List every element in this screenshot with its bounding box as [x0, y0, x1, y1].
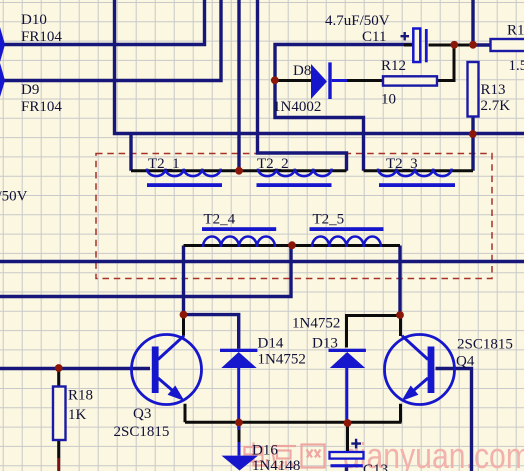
svg-text:D8: D8 [293, 63, 311, 79]
svg-text:T2_2: T2_2 [257, 156, 289, 172]
svg-text:1N4752: 1N4752 [258, 352, 306, 368]
svg-text:Q3: Q3 [133, 406, 151, 422]
svg-text:1N4148: 1N4148 [252, 458, 300, 471]
svg-text:D10: D10 [21, 12, 47, 28]
svg-text:2.7K: 2.7K [481, 98, 511, 114]
svg-text:2SC1815: 2SC1815 [457, 337, 513, 353]
svg-text:T2_5: T2_5 [313, 212, 345, 228]
svg-text:FR104: FR104 [21, 29, 62, 45]
svg-text:R13: R13 [481, 82, 506, 98]
svg-text:1.5K: 1.5K [509, 58, 524, 74]
svg-text:T2_4: T2_4 [204, 212, 236, 228]
svg-text:C13: C13 [363, 462, 388, 471]
svg-text:T2_1: T2_1 [148, 156, 180, 172]
svg-text:2SC1815: 2SC1815 [114, 424, 170, 440]
svg-text:4.7uF/50V: 4.7uF/50V [325, 13, 390, 29]
svg-text:1N4752: 1N4752 [292, 316, 340, 332]
svg-text:10: 10 [381, 92, 396, 108]
svg-text:1N4002: 1N4002 [273, 99, 321, 115]
svg-text:Q4: Q4 [456, 354, 475, 370]
svg-text:D16: D16 [252, 443, 278, 459]
svg-text:C11: C11 [362, 29, 386, 45]
svg-text:D13: D13 [312, 336, 338, 352]
svg-text:R12: R12 [381, 58, 406, 74]
svg-text:/50V: /50V [0, 189, 28, 205]
svg-text:R14: R14 [507, 23, 524, 39]
svg-text:R18: R18 [68, 388, 93, 404]
svg-text:D9: D9 [21, 82, 39, 98]
svg-text:D14: D14 [258, 336, 284, 352]
svg-text:FR104: FR104 [21, 99, 62, 115]
svg-text:T2_3: T2_3 [386, 156, 418, 172]
svg-text:1K: 1K [68, 407, 87, 423]
